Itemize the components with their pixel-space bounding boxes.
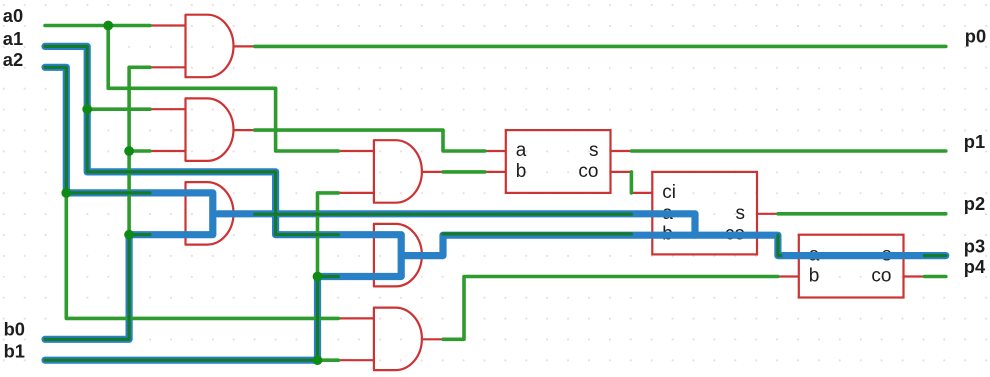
AND gate U3 (a2 AND b0) bbox=[186, 182, 234, 245]
junction b1 node upper bbox=[313, 272, 323, 282]
svg-text:p4: p4 bbox=[964, 256, 986, 277]
wire blue net a1-b1 route bbox=[45, 46, 401, 360]
AND gate U6 (a2 AND b1) bbox=[374, 308, 422, 371]
svg-text:ci: ci bbox=[662, 182, 676, 203]
wire core U5 out to FA.b bbox=[443, 232, 631, 235]
wire b1 core to U5.in2 bbox=[45, 277, 338, 361]
wire U4 output to HA1.b bbox=[443, 170, 485, 174]
wire b0 core to U3.in2 bbox=[45, 235, 150, 340]
wire core HA2.s to p3 bbox=[924, 254, 945, 257]
svg-text:p3: p3 bbox=[964, 236, 985, 257]
junction a1 node bbox=[82, 104, 92, 114]
wire p1 output bbox=[631, 149, 945, 153]
wire core FA.co down bbox=[778, 235, 781, 255]
wire U2 output to HA1.a bbox=[255, 130, 485, 151]
wire a0 to U1.in1 bbox=[45, 24, 150, 28]
svg-text:p1: p1 bbox=[964, 131, 985, 152]
wire blue U3 output to FA.a bbox=[218, 214, 695, 235]
junction b0 node upper bbox=[124, 146, 134, 156]
junction b0 node lower bbox=[124, 230, 134, 240]
AND gate U1 (a0 AND b0) bbox=[186, 15, 234, 77]
svg-text:p2: p2 bbox=[964, 193, 985, 214]
svg-text:s: s bbox=[589, 140, 599, 161]
wire b1 branch to U6.in2 bbox=[318, 358, 339, 362]
svg-text:b1: b1 bbox=[4, 340, 25, 361]
wire p4 output bbox=[924, 275, 945, 279]
svg-text:a2: a2 bbox=[3, 49, 23, 70]
svg-text:s: s bbox=[736, 203, 746, 224]
junction a2 node bbox=[61, 188, 71, 198]
adder box FA full adder bbox=[652, 172, 757, 255]
wire p2 output bbox=[778, 212, 946, 216]
wire a2 core to U3.in1 bbox=[45, 67, 150, 193]
wire a1 core to U5.in1 bbox=[45, 46, 338, 234]
AND gate U5 (a1 AND b1) bbox=[374, 224, 422, 287]
wire b1 riser to U4.in2 bbox=[318, 193, 339, 277]
svg-text:b0: b0 bbox=[4, 319, 25, 340]
adder pin stubs bbox=[485, 151, 925, 277]
svg-text:b: b bbox=[516, 161, 527, 182]
svg-text:b: b bbox=[809, 266, 820, 287]
gate input/output pin stubs bbox=[150, 26, 443, 361]
wire p0 output bbox=[255, 45, 946, 49]
AND gate U4 (a0 AND b1) bbox=[374, 140, 422, 203]
wire b0 branch to U2.in2 bbox=[129, 149, 150, 153]
wire HA1.co to FA.ci bbox=[630, 172, 634, 193]
adder box HA2 half adder bbox=[799, 235, 904, 298]
wire U6 output to HA2.b bbox=[443, 277, 778, 340]
adder box HA1 half adder bbox=[506, 130, 611, 193]
svg-text:co: co bbox=[578, 161, 598, 182]
wire blue U5 output to FA.b and FA.co to p3 bbox=[405, 235, 946, 255]
wire a1 branch to U2.in1 bbox=[87, 107, 150, 111]
junction b1 node lower bbox=[313, 355, 323, 365]
svg-text:a0: a0 bbox=[3, 5, 23, 26]
svg-text:a1: a1 bbox=[3, 28, 23, 49]
wire a2 branch to U6.in1 bbox=[66, 193, 338, 319]
wire a0 branch to U4.in1 bbox=[108, 26, 338, 152]
svg-text:co: co bbox=[871, 266, 891, 287]
wire blue net a2-b0 route bbox=[45, 67, 213, 339]
junction a0 node bbox=[103, 21, 113, 31]
svg-text:p0: p0 bbox=[965, 25, 986, 46]
wire b0 riser to U1.in2 bbox=[129, 67, 150, 234]
AND gate U2 (a1 AND b0) bbox=[186, 98, 234, 160]
wire core U3 out to FA.a bbox=[255, 213, 632, 216]
svg-text:a: a bbox=[516, 140, 527, 161]
